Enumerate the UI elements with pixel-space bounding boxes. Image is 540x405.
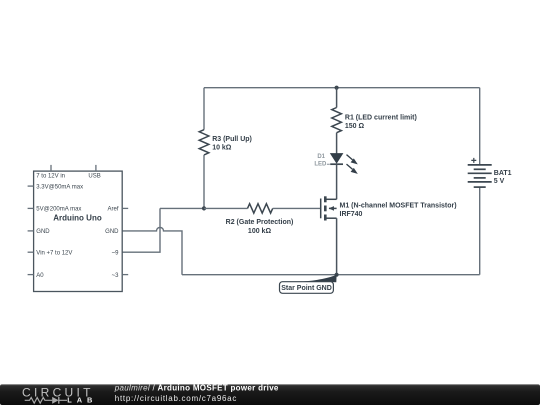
Arduino pin left GND (28, 230, 34, 232)
svg-text:7 to 12V in: 7 to 12V in (36, 174, 65, 180)
Arduino pin top USB (95, 165, 97, 171)
Arduino Uno module box (34, 171, 123, 291)
footer logo resistor-diode symbol (25, 398, 67, 404)
wire GND with hop (122, 227, 182, 274)
wire LED to MOSFET drain (336, 164, 338, 199)
junction node star point (335, 273, 339, 277)
svg-text:10 kΩ: 10 kΩ (212, 145, 232, 152)
svg-text:Arduino Uno: Arduino Uno (53, 213, 102, 222)
battery BAT1 plus sign (471, 158, 476, 163)
svg-text:A0: A0 (36, 273, 44, 279)
wire from pin ~9 (122, 208, 160, 252)
label D1 leader dash (327, 163, 330, 165)
svg-text:Aref: Aref (107, 206, 118, 212)
net flag Star Point GND box (280, 282, 334, 294)
svg-text:LAB: LAB (67, 396, 97, 405)
wire MOSFET source to ground (336, 218, 338, 275)
resistor R3 (199, 130, 209, 155)
Arduino pin left 3.3V (28, 185, 34, 187)
svg-text:5V@200mA max: 5V@200mA max (36, 206, 81, 212)
transistor M1 arrow (329, 206, 334, 211)
svg-text:100 kΩ: 100 kΩ (248, 228, 272, 235)
svg-text:IRF740: IRF740 (340, 211, 363, 218)
net flag Star Point GND pointer (302, 275, 337, 282)
svg-text:paulmirel / Arduino MOSFET pow: paulmirel / Arduino MOSFET power drive (114, 384, 279, 393)
svg-text:5 V: 5 V (494, 178, 505, 185)
svg-text:Vin +7 to 12V: Vin +7 to 12V (36, 250, 72, 256)
wire bottom ground net (182, 274, 480, 276)
svg-text:D1: D1 (317, 154, 325, 160)
junction node gate/R3 (202, 206, 206, 210)
wire R1 bottom lead (336, 133, 338, 154)
svg-text:~9: ~9 (112, 250, 120, 256)
svg-text:http://circuitlab.com/c7a96ac: http://circuitlab.com/c7a96ac (115, 394, 237, 403)
LED emission arrow 2 (347, 164, 353, 169)
svg-text:LED: LED (314, 162, 327, 168)
svg-text:M1 (N-channel MOSFET Transisto: M1 (N-channel MOSFET Transistor) (340, 202, 457, 209)
diode D1 cathode bar (330, 163, 343, 165)
footer bar (0, 384, 540, 405)
svg-text:R2 (Gate Protection): R2 (Gate Protection) (226, 219, 294, 226)
Arduino pin top 7-12V (50, 165, 52, 171)
LED emission arrow 1 (347, 155, 353, 160)
svg-text:GND: GND (36, 229, 50, 235)
Arduino pin right ~3 (122, 274, 128, 276)
junction node R1 top (335, 86, 339, 90)
svg-text:BAT1: BAT1 (494, 170, 512, 177)
Arduino pin left 5V (28, 207, 34, 209)
resistor R1 (332, 108, 342, 133)
svg-text:R3 (Pull Up): R3 (Pull Up) (212, 136, 252, 143)
diode D1 LED triangle (331, 154, 342, 163)
wire top net V+ (204, 87, 480, 89)
wire R2 right lead to gate (273, 207, 321, 209)
resistor R2 (248, 204, 273, 213)
wire battery right side bottom (479, 187, 481, 275)
battery BAT1 (468, 165, 492, 187)
wire battery right side top (479, 88, 481, 165)
svg-text:R1 (LED current limit): R1 (LED current limit) (345, 115, 417, 122)
svg-text:GND: GND (105, 229, 119, 235)
svg-text:Star Point GND: Star Point GND (281, 285, 332, 292)
wire R2 left lead (204, 207, 248, 209)
wire R1 top lead (336, 88, 338, 108)
Arduino pin left A0 (28, 274, 34, 276)
transistor M1 N-channel MOSFET (321, 196, 337, 220)
svg-text:~3: ~3 (112, 273, 120, 279)
svg-text:150 Ω: 150 Ω (345, 123, 365, 130)
wire R3 top lead (203, 88, 205, 130)
wire gate net from node (160, 207, 204, 209)
svg-text:USB: USB (88, 174, 100, 180)
svg-text:3.3V@50mA max: 3.3V@50mA max (36, 184, 83, 190)
Arduino pin left Vin (28, 251, 34, 253)
wire R3 bottom lead (203, 155, 205, 209)
Arduino pin right Aref (122, 207, 128, 209)
